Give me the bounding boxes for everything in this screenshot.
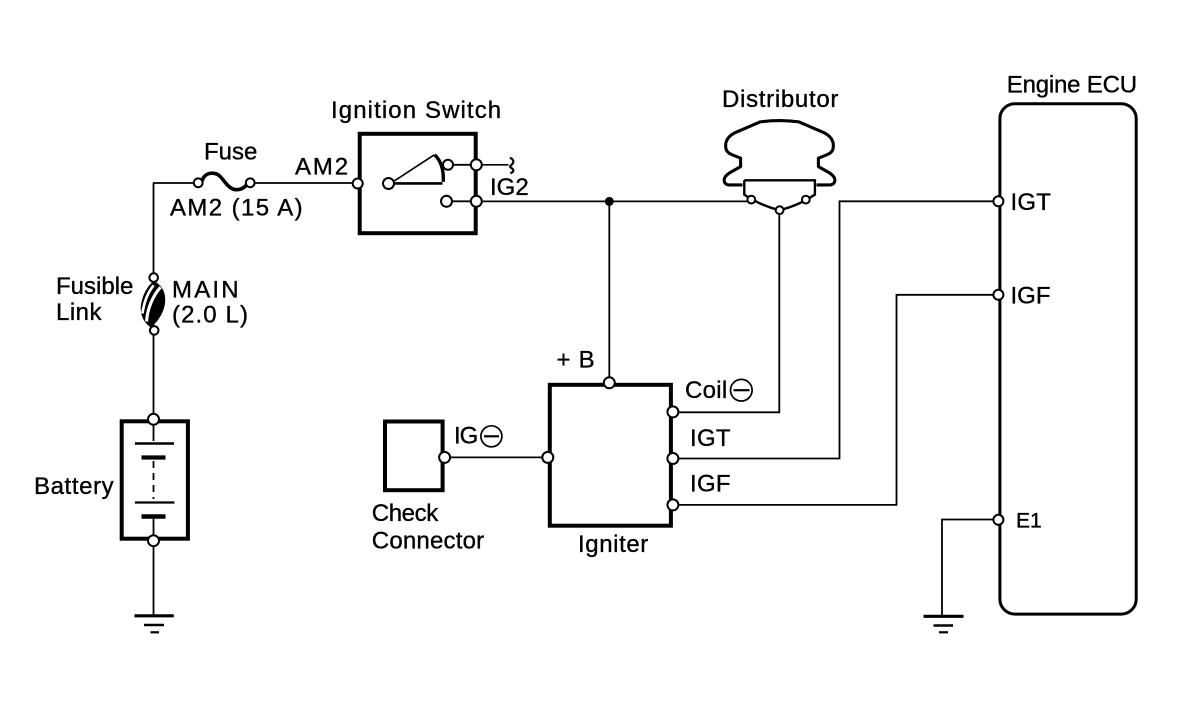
distributor terminal center [776,206,784,214]
Engine ECU box [1000,104,1136,614]
battery B1 [122,421,188,538]
svg-text:AM2 (15 A): AM2 (15 A) [170,195,304,222]
battery plate long bottom [135,501,175,503]
ECU pin IGF [993,290,1003,300]
fuse terminal right [246,178,255,187]
svg-text:Fuse: Fuse [204,139,257,166]
wire junction down to igniter +B [608,201,610,381]
distributor terminal left [747,196,755,204]
svg-text:IG: IG [454,423,477,450]
wire IG2 to distributor [482,200,748,202]
fusible link MAIN leaf symbol [141,281,165,328]
switch top right edge terminal [471,159,482,170]
igniter pin IGT [667,453,678,464]
svg-text:Coil: Coil [685,377,728,404]
switch top contact [443,160,453,170]
wire ST2 stub [482,164,509,166]
svg-text:IGT: IGT [690,425,731,452]
check connector box [385,422,443,491]
battery internal top lead [153,424,155,441]
wire check connector to igniter [450,456,543,458]
svg-text:IGF: IGF [690,471,731,498]
battery plate short bottom [142,514,166,518]
svg-text:IGF: IGF [1011,282,1051,309]
svg-text:Distributor: Distributor [722,86,839,113]
wire igniter IGT to ECU IGT [679,201,994,458]
svg-text:Connector: Connector [372,528,485,555]
battery internal bottom lead [153,518,155,537]
wire distributor center to coil pin [679,214,780,412]
igniter pin +B [604,377,615,388]
switch bottom right edge terminal IG2 [471,196,482,207]
switch top contact link [448,164,476,166]
svg-text:MAIN: MAIN [172,277,241,304]
ground battery [135,616,174,633]
fusible link terminal top [149,273,158,282]
fusible link terminal bottom [150,326,159,335]
svg-text:(2.0 L): (2.0 L) [172,302,249,329]
svg-text:Engine ECU: Engine ECU [1007,72,1137,99]
switch bottom contact link [447,200,477,202]
svg-text:IG2: IG2 [490,174,529,201]
switch contact line [394,182,443,185]
battery plate short top [142,455,166,459]
ground E1 [924,616,964,632]
igniter U1 box [550,385,671,526]
battery terminal bottom [148,535,159,546]
junction IG2/+B [605,197,614,206]
Coil minus symbol [731,379,753,401]
svg-text:E1: E1 [1016,510,1042,533]
wire top-left horizontal (corner to fuse) [153,182,195,184]
switch wiper arc [435,155,444,182]
ignition switch SW1 box [360,134,476,233]
battery internal dashed lead [153,461,155,499]
svg-text:AM2: AM2 [295,154,350,181]
switch arm [395,155,435,181]
switch inner contact [383,178,394,189]
distributor cap outline [724,121,835,185]
fuse AM2 (15 A) squiggle [202,173,248,190]
svg-text:+ B: + B [557,347,596,374]
battery terminal top [148,414,159,425]
igniter pin Coil [667,406,678,417]
svg-text:Fusible: Fusible [56,273,133,300]
wire igniter IGF to ECU IGF [679,295,994,505]
stub end hook [510,158,514,173]
svg-text:Link: Link [56,299,103,326]
ECU pin IGT [993,196,1003,206]
ECU pin E1 [993,515,1003,525]
IG minus symbol [481,426,502,447]
wire fuse to ignition switch AM2 [254,182,358,184]
svg-text:Ignition Switch: Ignition Switch [331,97,502,124]
svg-text:Igniter: Igniter [578,531,649,558]
igniter pin IGF [667,499,678,510]
svg-text:IGT: IGT [1011,189,1052,216]
check connector terminal [439,452,450,463]
wire battery negative to ground [153,546,155,615]
wire battery positive vertical (battery to top-left corner) [153,183,155,417]
igniter pin IG (left) [542,452,553,463]
distributor body [744,180,815,210]
svg-text:Check: Check [372,500,439,527]
battery plate long top [135,442,174,445]
switch terminal AM2 (left edge) [353,179,363,189]
svg-text:Battery: Battery [34,473,114,500]
fuse terminal left [194,178,203,187]
wire E1 to ground [942,520,993,616]
distributor terminal right [802,196,810,204]
switch bottom contact [441,196,452,207]
